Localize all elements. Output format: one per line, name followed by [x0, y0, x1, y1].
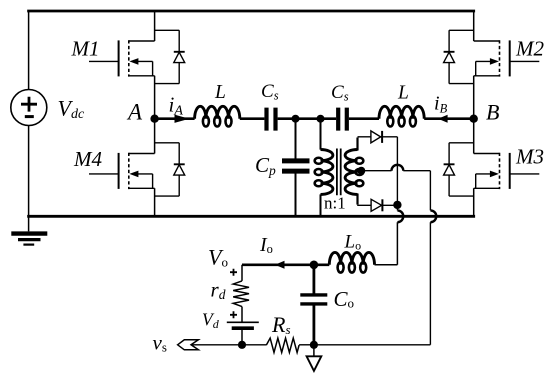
- svg-text:A: A: [126, 99, 143, 124]
- svg-text:L: L: [214, 82, 226, 103]
- svg-text:M1: M1: [71, 37, 100, 61]
- svg-text:L: L: [397, 82, 409, 103]
- svg-text:B: B: [486, 99, 499, 124]
- svg-text:M3: M3: [515, 144, 544, 168]
- svg-text:n:1: n:1: [324, 194, 346, 213]
- svg-text:M2: M2: [515, 37, 544, 61]
- svg-text:M4: M4: [73, 147, 102, 171]
